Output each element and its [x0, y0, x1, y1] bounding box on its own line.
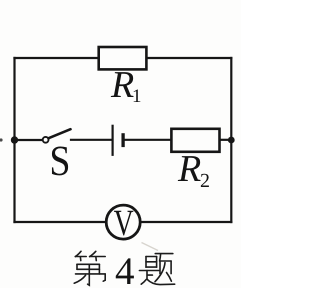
- wire bottom side: [15, 221, 232, 223]
- voltmeter V: [106, 205, 140, 239]
- caption 第: [74, 251, 105, 285]
- wire battery to R2: [126, 139, 172, 141]
- battery long plate: [111, 125, 113, 156]
- wire switch to battery: [71, 139, 112, 141]
- label R2: [178, 156, 209, 187]
- node B (right junction dot): [228, 137, 235, 144]
- scan artifact faint streak: [142, 243, 159, 251]
- resistor R1: [99, 47, 147, 69]
- label S: [52, 147, 68, 176]
- caption 题: [139, 254, 174, 285]
- label R1: [111, 72, 141, 102]
- wire left side: [13, 58, 15, 222]
- switch S: [43, 129, 71, 143]
- battery short plate: [121, 133, 124, 147]
- wire middle row: [15, 139, 46, 141]
- resistor R2: [171, 129, 219, 152]
- caption 4: [116, 258, 134, 284]
- wire right side: [230, 58, 232, 222]
- wire top side: [15, 57, 232, 59]
- scan artifact left edge: [0, 138, 3, 141]
- battery B1: [113, 125, 124, 156]
- node A (left junction dot): [11, 136, 18, 143]
- wire R2 to right edge: [220, 139, 232, 141]
